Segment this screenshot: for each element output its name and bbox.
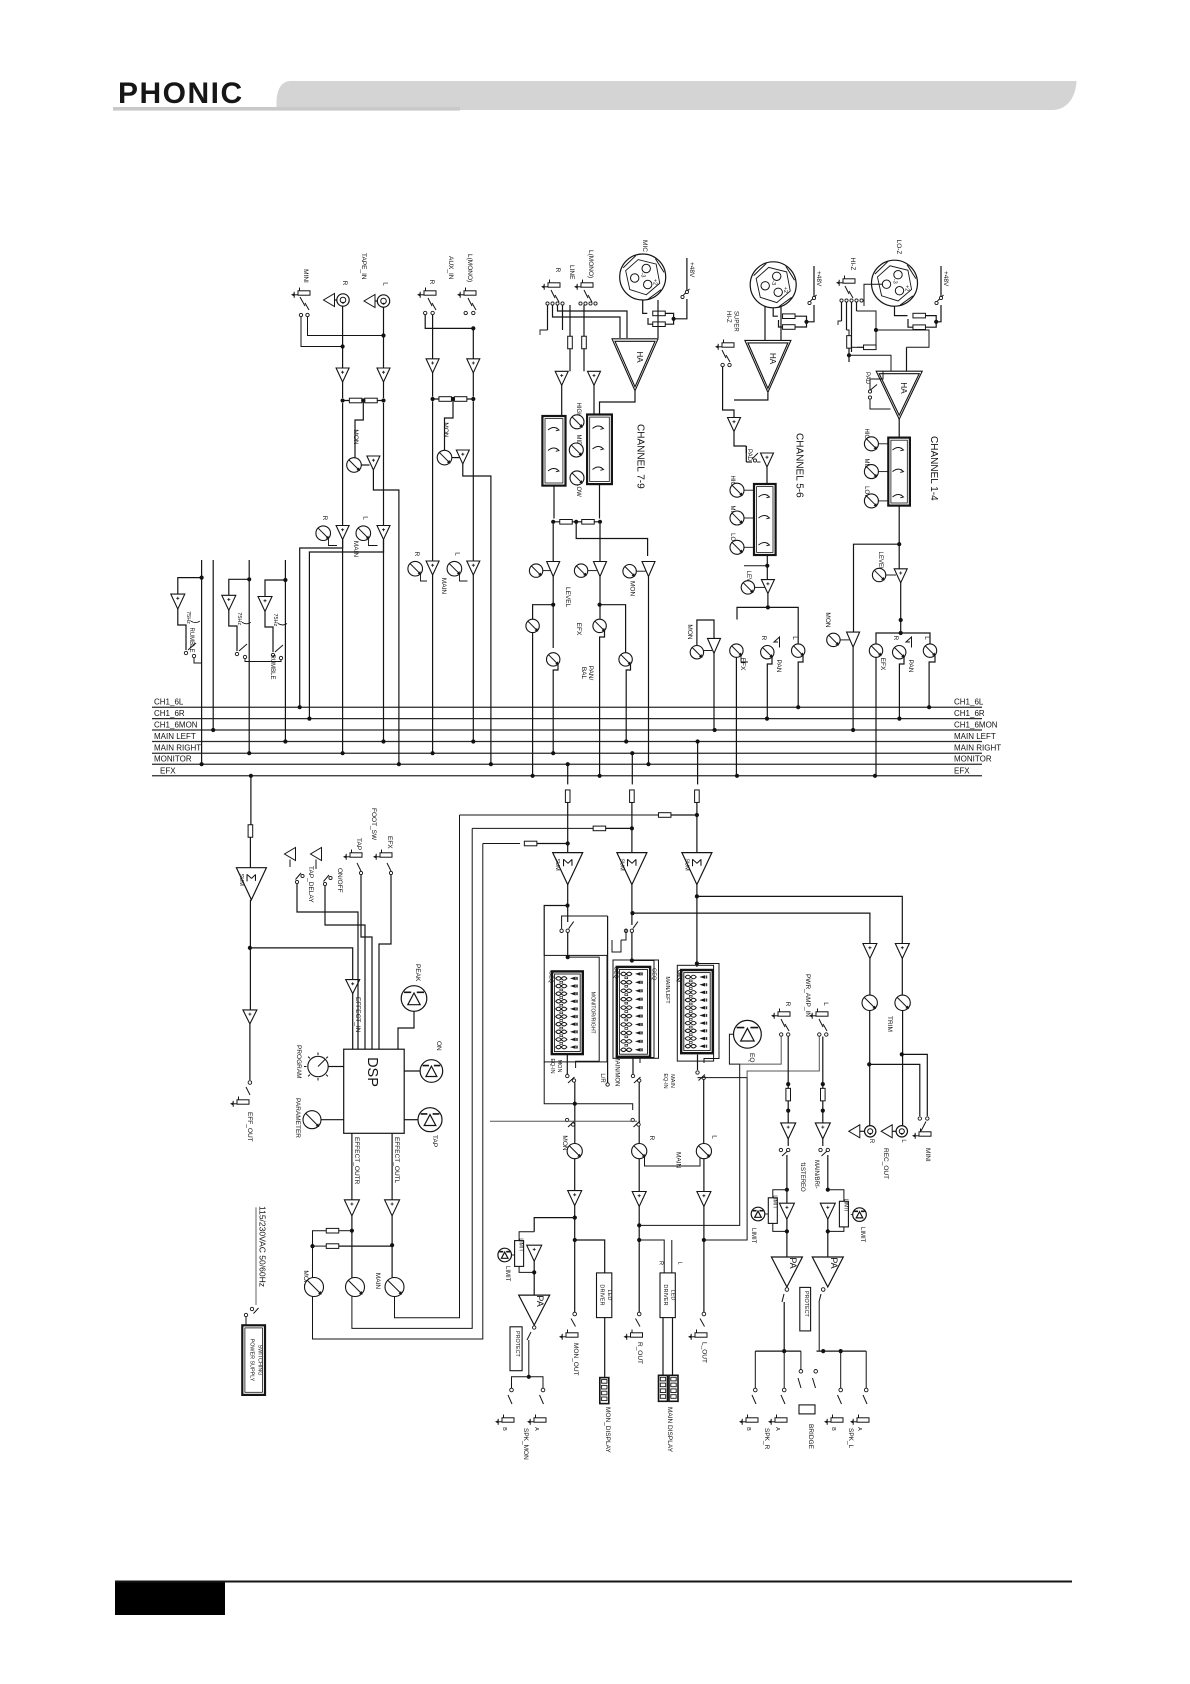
pa amp R: [771, 1257, 802, 1287]
svg-text:L: L: [677, 1261, 683, 1264]
svg-text:SWITCHING: SWITCHING: [257, 1345, 263, 1376]
wire rumble1 vertical to MONITOR: [200, 576, 204, 580]
mainleft master return line: [460, 814, 660, 816]
svg-text:AUX_IN: AUX_IN: [447, 256, 454, 280]
svg-text:BRIDGE: BRIDGE: [807, 1424, 814, 1450]
svg-text:DRIVER: DRIVER: [599, 1284, 605, 1305]
branch R to eq led riser: [639, 1048, 740, 1225]
wire tape L vertical: [383, 308, 385, 369]
wire to main R pot: [638, 1082, 640, 1143]
svg-text:EFX: EFX: [954, 766, 970, 775]
wire to eq56: [766, 467, 768, 484]
svg-text:L: L: [923, 636, 930, 640]
wire level56 down: [767, 594, 769, 608]
wiper joins tape: [329, 539, 338, 546]
wire tape L out to CH1_6R: [309, 540, 383, 719]
svg-text:PAN/: PAN/: [587, 666, 594, 681]
wire ha out: [600, 391, 636, 415]
svg-text:PROTECT: PROTECT: [803, 1291, 809, 1317]
amp tape L: [377, 368, 390, 382]
amp pwramp feed L: [895, 944, 909, 959]
amp tape main R: [336, 526, 349, 540]
svg-text:MON: MON: [442, 422, 449, 437]
wire aux L vertical: [472, 330, 474, 359]
pa L out switch: [821, 1288, 825, 1292]
wire mon eff route: [313, 844, 483, 1340]
ha CH5-6: [745, 340, 791, 392]
wire effect_in to dsp: [352, 994, 354, 1050]
trim R down: [869, 1011, 871, 1126]
jack HI-Z 14: [843, 279, 855, 283]
wire center eff route: [352, 828, 472, 1328]
svg-text:EFFECT_OUTL: EFFECT_OUTL: [393, 1137, 400, 1184]
eq out wires 79: [553, 486, 555, 519]
pot PAN79L: [619, 653, 632, 666]
svg-text:LEVEL: LEVEL: [564, 587, 571, 608]
svg-text:LIMIT: LIMIT: [750, 1228, 756, 1244]
amp MON79: [642, 562, 655, 577]
wire ha14 out: [898, 419, 900, 438]
mon display: [600, 1378, 609, 1404]
amp main R: [638, 1159, 640, 1192]
sum amp MONITOR: [553, 853, 583, 885]
svg-text:LIMIT: LIMIT: [518, 1238, 524, 1252]
wire hiz56 down: [723, 367, 734, 418]
bus MAIN LEFT: [152, 741, 982, 743]
svg-text:LIMIT: LIMIT: [772, 1195, 778, 1209]
svg-text:A: A: [856, 1427, 862, 1431]
svg-text:MONITOR: MONITOR: [154, 755, 192, 764]
svg-text:GEQ: GEQ: [547, 971, 553, 984]
svg-text:+48V: +48V: [815, 271, 822, 287]
wire tape R vertical: [342, 307, 344, 369]
resistors MIC to +48V: [643, 300, 648, 313]
wire sum mainright out: [631, 885, 633, 925]
wire mon56 to CH1_6MON: [713, 653, 715, 729]
amp main L: [703, 1159, 705, 1192]
bypass L gray: [747, 1037, 819, 1078]
geq A out: [566, 1054, 568, 1074]
svg-text:MAIN DISPLAY: MAIN DISPLAY: [666, 1407, 673, 1453]
svg-text:PROTECT: PROTECT: [514, 1331, 520, 1357]
svg-text:R: R: [321, 516, 328, 521]
amp pad56: [761, 453, 774, 467]
svg-text:SUM: SUM: [683, 858, 689, 871]
svg-text:DRIVER: DRIVER: [662, 1284, 668, 1305]
svg-text:MAIN LEFT: MAIN LEFT: [154, 732, 196, 741]
svg-text:REC_OUT: REC_OUT: [882, 1148, 889, 1179]
svg-text:EQ-IN: EQ-IN: [549, 1058, 555, 1073]
geq block MONITOR/RIGHT: [544, 955, 607, 1062]
protect box mon: [510, 1327, 522, 1371]
svg-text:MAIN LEFT: MAIN LEFT: [954, 732, 996, 741]
svg-text:FOOT_SW: FOOT_SW: [370, 808, 377, 841]
svg-text:R: R: [868, 1139, 874, 1144]
amp level79 L: [594, 562, 607, 577]
header underline: [113, 107, 460, 111]
wire tape R to MAIN RIGHT bus: [342, 540, 344, 754]
limit chain mon: led: [498, 1248, 512, 1262]
wires footsw to dsp: [297, 884, 358, 1049]
wire mini to R/L: [308, 317, 384, 336]
svg-text:GEQ: GEQ: [612, 966, 618, 979]
resistors xlr14: [895, 306, 908, 315]
wire to mon pot: [574, 1082, 576, 1143]
lower switch row main: [631, 1118, 634, 1121]
svg-text:HA: HA: [635, 351, 644, 363]
wire aux R down: [432, 401, 434, 561]
wire mic to ha: [657, 300, 659, 338]
amp tape MON: [361, 464, 369, 466]
trim L down: [902, 1011, 904, 1126]
protect box main: [800, 1287, 811, 1331]
dsp box: [344, 1049, 405, 1133]
svg-text:LIMIT: LIMIT: [843, 1199, 849, 1213]
svg-text:TAPE_IN: TAPE_IN: [360, 253, 367, 280]
led EQ: [734, 1020, 762, 1048]
svg-text:MAIN/MON: MAIN/MON: [614, 1056, 620, 1087]
amp eff out master: [243, 1010, 257, 1024]
efx pot 79R feed: [533, 605, 554, 619]
branch mon to limit chain: [534, 1218, 575, 1232]
footer black block: [115, 1582, 225, 1616]
svg-text:LINE: LINE: [568, 265, 575, 280]
svg-text:MAIN RIGHT: MAIN RIGHT: [154, 744, 201, 753]
r14 out: [899, 657, 904, 718]
wire led driver to display: [604, 1318, 606, 1378]
limit L: structure: [826, 1188, 830, 1192]
svg-text:R: R: [784, 1002, 791, 1007]
jack SPK_MON B: [502, 1418, 514, 1422]
rumble filter 1: [178, 578, 202, 595]
eq block CH7-9 right: [587, 415, 612, 485]
svg-text:RUMBLE: RUMBLE: [188, 627, 194, 652]
cross line y1104 b: [575, 1104, 633, 1110]
amp aux main R: [426, 561, 439, 575]
svg-text:MAIN/BRI-: MAIN/BRI-: [813, 1160, 819, 1189]
resistors xlr56: [773, 308, 778, 316]
svg-text:75Hz: 75Hz: [236, 612, 242, 625]
svg-text:PA: PA: [535, 1295, 545, 1306]
svg-text:HA: HA: [899, 382, 908, 394]
svg-text:L: L: [791, 636, 798, 640]
jack R_OUT: [631, 1333, 643, 1337]
svg-text:PAD: PAD: [746, 449, 752, 462]
switch +48V: [686, 258, 688, 290]
branch effect_in: [250, 948, 353, 980]
pot EFX56: [730, 644, 743, 657]
xlr CH1-4: [872, 260, 918, 306]
geq B out: [632, 1057, 634, 1074]
svg-text:TRIM: TRIM: [886, 1016, 893, 1032]
switch on/off: [315, 860, 317, 870]
wire monitor sum feed: [566, 762, 570, 766]
jack SPK_R A: [775, 1418, 787, 1422]
switch aux R: [428, 298, 436, 310]
jack HI-Z 56: [722, 343, 734, 347]
l56 out: [798, 656, 803, 707]
wire peak to dsp: [398, 1011, 414, 1049]
amp mon14: [847, 632, 860, 647]
svg-text:MAIN: MAIN: [669, 1074, 675, 1088]
wire rumble3 vertical to MAIN LEFT: [283, 578, 287, 582]
rumble switch 1: [184, 651, 187, 654]
eq block CH5-6: [754, 484, 776, 555]
pot TRIM L: [895, 995, 910, 1010]
bypass R gray: [740, 1037, 782, 1065]
amp tape R: [336, 368, 349, 382]
svg-text:CHANNEL 7-9: CHANNEL 7-9: [635, 424, 646, 489]
amp level79 R: [547, 562, 560, 577]
branch mon14: [854, 544, 900, 632]
effect_outR from dsp: [351, 1133, 353, 1200]
svg-text:PWR_AMP_IN: PWR_AMP_IN: [804, 974, 811, 1017]
svg-text:CH1_6R: CH1_6R: [154, 709, 185, 718]
switch tap_delay: [289, 860, 291, 868]
geq C out: [697, 1055, 699, 1070]
svg-text:EFX: EFX: [386, 836, 393, 849]
pan pots 79 feed: [600, 605, 626, 653]
svg-text:LED: LED: [606, 1290, 612, 1301]
jack MON_OUT: [566, 1333, 578, 1337]
svg-text:BAL: BAL: [580, 667, 587, 680]
wire L/R riser: [607, 916, 609, 1083]
efx56 out: [735, 657, 737, 775]
svg-text:A: A: [774, 1427, 780, 1431]
amp aux main L: [467, 561, 480, 575]
pot EFX79R: [526, 619, 539, 632]
pan glyph 14: [906, 637, 912, 648]
svg-text:MAIN RIGHT: MAIN RIGHT: [954, 744, 1001, 753]
ha CH1-4: [876, 371, 922, 419]
svg-text:PARAMETER: PARAMETER: [294, 1098, 301, 1138]
jack SPK_MON A: [534, 1418, 546, 1422]
amp effect outR: [344, 1200, 359, 1216]
wire rumble2 vertical to MAIN RIGHT: [247, 577, 251, 581]
svg-text:-3: -3: [770, 280, 776, 285]
spk R jack A circle: [783, 1351, 785, 1388]
svg-text:SPK_R: SPK_R: [763, 1428, 770, 1450]
svg-text:Σ: Σ: [624, 858, 639, 866]
pot LEVEL79 L: [574, 564, 587, 577]
resistor cross 2: [313, 1245, 327, 1247]
geq A bypass wire: [568, 957, 600, 1068]
amp line L: [588, 371, 601, 385]
svg-text:MONITOR/RIGHT: MONITOR/RIGHT: [590, 992, 596, 1035]
resistor efx master: [248, 825, 253, 838]
svg-text:EFX: EFX: [160, 766, 176, 775]
pot aux MON: [437, 450, 452, 465]
svg-text:ON: ON: [435, 1041, 442, 1051]
jack SPK_R B: [746, 1418, 758, 1422]
pot LEVEL79 R: [529, 564, 542, 577]
bus MAIN RIGHT: [152, 752, 982, 754]
rumble switch 3: [271, 653, 274, 656]
svg-text:GEQ: GEQ: [676, 970, 682, 983]
svg-text:CHANNEL 5-6: CHANNEL 5-6: [794, 433, 805, 498]
branch trim R to mini: [869, 1064, 920, 1116]
svg-text:+2: +2: [782, 287, 788, 293]
cross line y1104: [544, 1062, 575, 1104]
wiper joins aux: [421, 574, 428, 581]
wires rumble tops: [201, 577, 203, 579]
svg-text:EFX: EFX: [575, 623, 582, 636]
effect_outL from dsp: [391, 1133, 393, 1200]
jack MINI out: [918, 1117, 921, 1120]
svg-text:TAP: TAP: [355, 838, 362, 850]
svg-text:L/R: L/R: [599, 1073, 605, 1083]
sum amp MAIN RIGHT: [617, 853, 647, 885]
wire main eff route: [395, 815, 460, 1318]
rca REC_OUT R: [849, 1125, 860, 1138]
wire tape mon branch: [355, 401, 363, 459]
bus EFX: [152, 775, 982, 777]
arrow amp R: [324, 294, 335, 307]
bridge jacks: [799, 1370, 803, 1374]
branch trim L to mini: [902, 1054, 928, 1116]
svg-text:Σ: Σ: [689, 858, 704, 866]
wires line jacks to HA: [553, 305, 621, 338]
branch L to riser 747: [698, 1078, 748, 1240]
l14 out: [929, 656, 935, 707]
svg-text:CH1_6MON: CH1_6MON: [954, 721, 998, 730]
svg-text:MON: MON: [629, 581, 636, 596]
svg-text:+48V: +48V: [942, 271, 949, 287]
wires to main displays: [662, 1318, 664, 1376]
svg-text:LED: LED: [670, 1290, 676, 1301]
pot EFX79L: [593, 619, 606, 632]
branch mon to led driver: [575, 1240, 605, 1273]
arrow tap_delay 1: [285, 848, 296, 861]
svg-text:B: B: [501, 1427, 507, 1431]
resistor row aux: [433, 398, 474, 400]
xlr MIC: [620, 254, 666, 300]
rumble filter 3: [265, 580, 285, 597]
jack SPK_L A: [857, 1418, 869, 1422]
svg-text:L: L: [362, 516, 369, 520]
wire xlr56 to ha: [764, 306, 766, 340]
svg-text:MON: MON: [561, 1135, 568, 1150]
switch R_OUT: [637, 1312, 641, 1316]
wire tape R down: [342, 403, 344, 526]
wire r56-l56 join: [741, 656, 748, 663]
amp pwramp feed R: [863, 944, 877, 959]
svg-text:+2: +2: [652, 279, 658, 285]
svg-text:MON: MON: [556, 1060, 562, 1073]
svg-text:MAIN/LEFT: MAIN/LEFT: [664, 976, 670, 1004]
vertical resistors line: [569, 305, 571, 336]
svg-text:Σ: Σ: [560, 858, 575, 866]
switch main/bridge L: [819, 1148, 822, 1151]
svg-text:R: R: [760, 636, 767, 641]
geq B bypass wire: [632, 961, 654, 1064]
svg-text:R: R: [428, 280, 435, 285]
bus CH1_6L: [152, 706, 982, 708]
svg-text:SPK_MON: SPK_MON: [522, 1428, 529, 1460]
bus CH1_6MON: [152, 729, 982, 731]
svg-text:LO-Z: LO-Z: [895, 240, 902, 255]
level row 79: [552, 524, 554, 562]
svg-text:MON: MON: [824, 612, 831, 627]
amp aux MON: [452, 457, 460, 459]
wire sum monitor out: [567, 885, 569, 922]
svg-text:L: L: [711, 1135, 718, 1139]
svg-text:75Hz: 75Hz: [185, 611, 191, 624]
svg-text:CHANNEL 1-4: CHANNEL 1-4: [928, 436, 939, 501]
svg-text:EFX: EFX: [879, 658, 886, 671]
branch R feeds led driver: [639, 1240, 664, 1273]
sum amp EFX: [236, 868, 266, 900]
switch EFF_OUT: [248, 1081, 252, 1085]
wire mainleft sum feed: [696, 739, 700, 743]
svg-text:TAP: TAP: [431, 1135, 438, 1147]
svg-text:MAIN: MAIN: [440, 578, 447, 595]
pot tape MON: [347, 458, 362, 473]
svg-text:B: B: [745, 1427, 751, 1431]
svg-text:MON: MON: [352, 429, 359, 444]
svg-text:PA: PA: [788, 1257, 798, 1268]
wire mainright sum feed: [630, 751, 634, 755]
wire main R down: [638, 1207, 640, 1313]
arrow amp L: [364, 295, 375, 308]
pot TRIM R: [862, 995, 877, 1010]
svg-text:L: L: [454, 552, 461, 556]
svg-text:MON: MON: [686, 624, 693, 639]
wire to trim L: [901, 959, 903, 996]
wire aux R to MAIN RIGHT bus: [432, 575, 434, 753]
wire efx bus down: [249, 774, 253, 778]
svg-text:PHONIC: PHONIC: [118, 77, 244, 110]
lower switch row mon: [565, 1118, 568, 1121]
rca TAPE_IN R: [337, 294, 349, 306]
svg-text:CH1_6MON: CH1_6MON: [154, 721, 198, 730]
svg-text:HA: HA: [768, 353, 777, 365]
svg-text:A: A: [533, 1427, 539, 1431]
power switch: [250, 1307, 253, 1310]
amp level14: [894, 569, 907, 583]
jog mainright: [612, 940, 621, 952]
svg-text:EFX: EFX: [739, 658, 746, 671]
wiper join main: [645, 1157, 701, 1167]
wire sum mainleft out: [696, 885, 698, 967]
amp aux R: [426, 359, 439, 373]
amp mon56: [708, 638, 721, 653]
jack MINI: [298, 291, 310, 295]
amp EFFECT_IN: [346, 980, 360, 994]
svg-text:MIC: MIC: [641, 240, 648, 252]
svg-text:L(MONO): L(MONO): [466, 254, 473, 282]
svg-text:R: R: [648, 1136, 655, 1141]
jack AUX R: [424, 291, 436, 295]
wire aux mon branch: [445, 399, 454, 451]
jack SPK_L B: [831, 1418, 843, 1422]
power supply box: [242, 1325, 265, 1395]
bus MONITOR: [152, 763, 982, 765]
junction tape MON to MONITOR bus: [397, 762, 401, 766]
efx pot 79 outs: [532, 633, 534, 776]
svg-text:L: L: [382, 282, 389, 286]
svg-text:EFF_OUT: EFF_OUT: [246, 1112, 253, 1142]
svg-text:+48V: +48V: [688, 262, 695, 278]
svg-text:CH1_6L: CH1_6L: [954, 698, 984, 707]
resistor v 14: [847, 336, 852, 349]
svg-text:R: R: [658, 1261, 664, 1265]
pot center eff: [346, 1278, 365, 1297]
led driver box MAIN: [660, 1273, 675, 1318]
switch L_OUT: [702, 1312, 706, 1316]
footer rule line: [115, 1581, 1072, 1583]
pot EFX14: [869, 644, 882, 657]
